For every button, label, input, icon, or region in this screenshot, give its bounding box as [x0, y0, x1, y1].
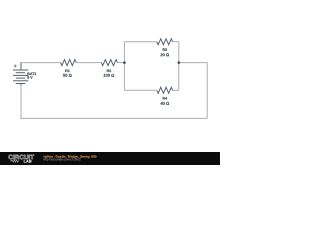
- wire: R1 to R2: [76, 62, 101, 64]
- svg-text:100 Ω: 100 Ω: [103, 73, 115, 78]
- wire: bottom return to battery: [21, 84, 207, 118]
- resistor R1: [61, 60, 77, 66]
- wire: parallel box right vertical: [178, 42, 180, 91]
- svg-text:20 Ω: 20 Ω: [160, 52, 170, 57]
- wire: node B tap to outer right and down: [179, 63, 207, 119]
- svg-text:LAB: LAB: [24, 158, 32, 163]
- battery plus sign: [14, 65, 17, 68]
- wire: battery top to R1: [21, 63, 61, 70]
- logo resistor zigzag: [10, 160, 19, 162]
- resistor R4: [157, 87, 173, 93]
- wire: box top left segment: [124, 41, 156, 43]
- wire: box bottom left segment: [124, 89, 156, 91]
- watermark bar: [0, 152, 220, 165]
- svg-text:9 V: 9 V: [27, 76, 33, 80]
- wire: R3 to box right vertical: [173, 41, 179, 43]
- node B junction dot: [178, 61, 181, 64]
- svg-text:http://circuitlab.com/c7zf3e2: http://circuitlab.com/c7zf3e2: [43, 157, 81, 161]
- wire: parallel box left vertical: [123, 42, 125, 91]
- resistor R3: [157, 39, 173, 45]
- svg-text:40 Ω: 40 Ω: [160, 101, 170, 106]
- wire: R4 to box right vertical: [173, 89, 179, 91]
- battery BAT1: [13, 63, 28, 86]
- svg-text:50 Ω: 50 Ω: [63, 73, 73, 78]
- resistor R2: [101, 60, 117, 66]
- node A junction dot: [123, 61, 126, 64]
- wire: R2 to node A: [118, 62, 125, 64]
